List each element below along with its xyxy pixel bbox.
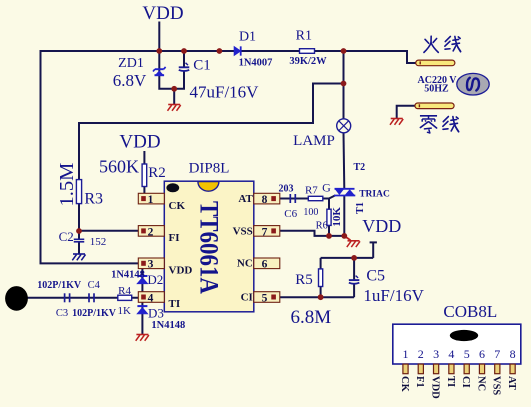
svg-text:203: 203 [279,183,294,194]
svg-text:3: 3 [148,259,154,271]
svg-text:VDD: VDD [119,132,160,153]
svg-text:8: 8 [262,194,268,206]
svg-text:7: 7 [262,226,268,238]
svg-text:6.8V: 6.8V [113,71,147,90]
svg-text:1N4148: 1N4148 [151,320,185,331]
svg-text:T2: T2 [353,162,365,173]
svg-text:7: 7 [494,347,500,361]
svg-text:1.5M: 1.5M [56,163,78,207]
svg-text:C4: C4 [88,280,101,291]
svg-text:R4: R4 [118,285,131,297]
svg-text:C1: C1 [193,57,211,73]
svg-text:R6: R6 [316,221,328,232]
svg-text:2: 2 [418,347,424,361]
svg-text:C5: C5 [366,267,385,284]
svg-text:AT: AT [506,376,517,390]
svg-text:TT6061A: TT6061A [195,201,224,294]
svg-text:1N4148: 1N4148 [111,269,145,280]
svg-text:2: 2 [148,226,154,238]
svg-text:560K: 560K [99,157,139,177]
svg-text:DIP8L: DIP8L [189,161,230,177]
svg-text:LAMP: LAMP [293,133,335,149]
svg-text:VDD: VDD [142,3,183,24]
svg-text:100: 100 [303,207,318,218]
svg-text:R7: R7 [305,184,318,196]
svg-text:COB8L: COB8L [443,302,497,321]
svg-text:T1: T1 [355,202,366,214]
svg-text:CK: CK [169,200,186,212]
svg-text:C3: C3 [56,308,68,319]
svg-text:6: 6 [262,259,268,271]
svg-text:C6: C6 [284,208,297,220]
svg-text:C2: C2 [59,229,74,244]
svg-text:5: 5 [262,292,268,304]
svg-text:ZD1: ZD1 [118,56,144,71]
svg-text:1: 1 [148,194,154,206]
svg-text:10K: 10K [331,207,343,227]
svg-text:CI: CI [460,376,471,388]
svg-text:8: 8 [510,347,516,361]
svg-text:CK: CK [399,376,410,393]
svg-text:R3: R3 [84,190,103,207]
svg-text:FI: FI [169,232,180,244]
svg-text:R5: R5 [295,272,313,288]
svg-text:NC: NC [475,376,486,391]
svg-text:3: 3 [433,347,439,361]
svg-text:D1: D1 [239,30,256,45]
svg-text:D2: D2 [147,272,163,287]
svg-text:102P/1KV: 102P/1KV [37,280,82,291]
svg-text:VDD: VDD [430,376,441,399]
svg-text:102P/1KV: 102P/1KV [72,308,117,319]
svg-text:VSS: VSS [491,376,502,395]
svg-text:1uF/16V: 1uF/16V [363,286,424,305]
svg-text:NC: NC [237,258,253,270]
svg-text:TI: TI [445,376,456,387]
svg-text:152: 152 [90,236,107,248]
svg-text:VSS: VSS [233,225,253,237]
svg-text:G: G [322,181,331,195]
svg-text:4: 4 [448,347,454,361]
svg-text:TI: TI [169,298,181,310]
svg-text:1K: 1K [117,305,131,317]
svg-text:F1: F1 [414,376,425,388]
svg-text:47uF/16V: 47uF/16V [190,82,260,101]
svg-text:6.8M: 6.8M [290,307,331,328]
svg-text:R1: R1 [296,29,312,44]
svg-text:1N4007: 1N4007 [239,57,273,68]
svg-text:VDD: VDD [169,265,193,277]
svg-text:TRIAC: TRIAC [359,190,390,200]
svg-text:4: 4 [148,292,154,304]
svg-text:1: 1 [403,347,409,361]
svg-text:50HZ: 50HZ [424,84,449,95]
svg-text:6: 6 [479,347,485,361]
svg-text:VDD: VDD [362,216,401,236]
svg-text:39K/2W: 39K/2W [289,56,327,67]
svg-text:AT: AT [238,193,253,205]
svg-text:D3: D3 [148,306,164,321]
svg-text:R2: R2 [148,165,166,181]
svg-text:CI: CI [241,291,253,303]
svg-text:5: 5 [464,347,470,361]
